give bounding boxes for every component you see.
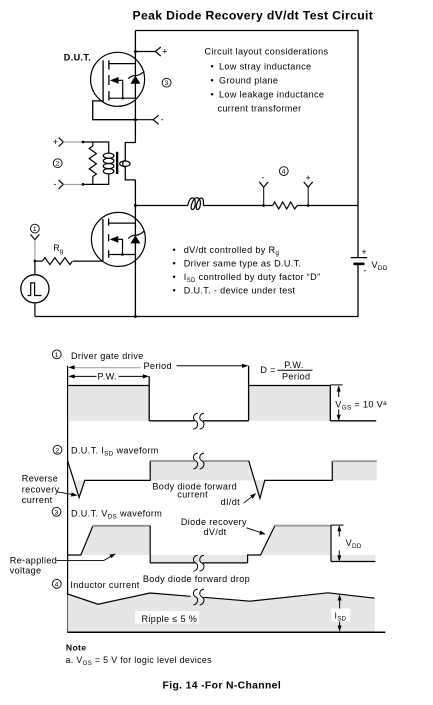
mosfet DUT gate-source tie wire — [93, 99, 136, 120]
svg-text:•: • — [211, 76, 215, 86]
wf3 outline left — [68, 526, 93, 555]
transformer T1 primary winding — [103, 153, 114, 174]
transformer T1 primary bottom wire — [83, 174, 109, 185]
svg-text:Period: Period — [282, 372, 310, 382]
wf2 waveform outline left — [68, 461, 151, 498]
wf2 right step gray top edge — [332, 460, 377, 462]
node 1 circled label — [31, 224, 40, 233]
transformer T1 secondary jog wires — [125, 143, 135, 180]
wf2 second spike fill — [255, 480, 265, 498]
svg-text:2: 2 — [55, 447, 59, 454]
svg-text:Low leakage inductance: Low leakage inductance — [219, 90, 324, 100]
wf4 ripple line segment b — [204, 593, 375, 601]
wf1 pulse2 fill — [249, 386, 331, 421]
terminal + sense wire — [135, 51, 155, 53]
wire right bus upper — [357, 30, 359, 258]
terminal - sense wire — [135, 119, 153, 121]
wf3 right drop and low line — [331, 525, 375, 561]
node 2 waveform circled label — [53, 445, 62, 454]
svg-text:Reverse: Reverse — [22, 474, 58, 484]
resistor Rg — [42, 258, 72, 265]
wf4 break symbol — [193, 589, 204, 605]
svg-text:a. VGS = 5 V for logic level d: a. VGS = 5 V for logic level devices — [66, 655, 213, 667]
svg-text:Note: Note — [66, 643, 87, 653]
svg-text:Re-applied: Re-applied — [10, 555, 57, 565]
mosfet DUT body arrow — [110, 77, 119, 84]
transformer T1 secondary loop — [120, 161, 130, 166]
wire gate drive left — [35, 260, 43, 262]
mosfet driver body arrow — [110, 236, 119, 243]
wf3 diode recovery arrow — [247, 528, 263, 533]
mosfet DUT channel segments — [108, 60, 110, 100]
svg-text:Ground plane: Ground plane — [219, 76, 278, 86]
svg-text:Fig. 14 -For N-Channel: Fig. 14 -For N-Channel — [163, 680, 282, 691]
waveform axis line — [67, 366, 69, 633]
wire left bus upper — [134, 31, 136, 144]
svg-text:current transformer: current transformer — [218, 104, 302, 114]
mosfet driver body diode cathode squiggle — [128, 231, 144, 239]
svg-text:Body diode forward drop: Body diode forward drop — [143, 574, 250, 584]
wf3 step and second ramp — [248, 526, 275, 563]
svg-text:-: - — [161, 114, 164, 124]
wf2 reverse recovery arrow — [58, 492, 74, 495]
mosfet driver source line — [109, 254, 136, 256]
terminal - sense chevron — [153, 115, 159, 124]
mosfet DUT gate bar — [102, 60, 104, 99]
mosfet driver gate bar — [102, 219, 104, 261]
svg-text:•: • — [211, 61, 215, 71]
wf4 baseline — [68, 631, 386, 633]
svg-text:Period: Period — [144, 361, 172, 371]
terminal 2- chevron — [59, 180, 64, 189]
wf1 period dimension line — [68, 361, 248, 371]
wire junction to pulse generator — [34, 261, 36, 275]
wf2 dI/dt arrow — [244, 495, 254, 503]
wire bottom rail — [35, 316, 358, 318]
node 2- junction dot — [82, 183, 85, 186]
wire pulse generator to ground rail — [34, 303, 36, 317]
svg-text:current: current — [22, 495, 53, 505]
terminal 2+ sense wire — [63, 141, 83, 143]
svg-text:Diode recovery: Diode recovery — [181, 517, 247, 527]
svg-text:VDD: VDD — [372, 260, 388, 272]
wf4 fill — [68, 593, 375, 632]
svg-text:P.W.: P.W. — [98, 371, 117, 381]
wf1 low line segment b — [203, 420, 249, 422]
mosfet DUT circle — [91, 52, 145, 106]
svg-text:P.W.: P.W. — [284, 360, 303, 370]
svg-text:dV/dt: dV/dt — [204, 527, 227, 537]
svg-text:recovery: recovery — [22, 485, 60, 495]
node 4+ junction dot — [307, 204, 310, 207]
wf4 ripple label — [135, 611, 199, 624]
wire inductor to resistor — [203, 205, 272, 207]
svg-text:dV/dt controlled by Rg: dV/dt controlled by Rg — [184, 245, 280, 257]
terminal 4+ stem — [307, 187, 309, 205]
node 2 circled label — [53, 159, 62, 168]
wf3 low line segment a — [150, 562, 194, 564]
mosfet driver body-source dot — [121, 253, 124, 256]
mosfet driver body diode triangle — [130, 235, 140, 243]
svg-text:+: + — [162, 47, 168, 57]
mosfet DUT body wire — [119, 80, 123, 98]
svg-text:Driver gate drive: Driver gate drive — [71, 351, 144, 361]
wire top rail — [135, 30, 358, 32]
svg-text:VDD: VDD — [346, 538, 362, 550]
wf2 reverse recovery spike fill — [74, 480, 85, 497]
terminal 4- stem — [263, 187, 265, 205]
terminal 4- chevron — [259, 182, 268, 187]
wire resistor to right bus — [297, 205, 358, 207]
wf3 first top gray edge — [93, 525, 151, 527]
battery VDD long plate — [351, 257, 367, 259]
wire Rg to gate — [73, 260, 103, 262]
svg-text:dI/dt: dI/dt — [221, 497, 241, 507]
wf1 pw dimension line — [68, 371, 149, 381]
terminal 2+ chevron — [59, 138, 64, 147]
svg-text:4: 4 — [55, 581, 59, 588]
wf1 vgs dimension — [330, 385, 342, 421]
svg-text:4: 4 — [282, 169, 286, 176]
mosfet DUT drain line — [109, 63, 135, 65]
wf3 low band fill right — [331, 555, 375, 561]
wf1 pulse1 fill — [68, 386, 149, 421]
wf1 duty factor formula — [260, 360, 312, 381]
wf1 low line segment a — [149, 420, 194, 422]
node 2+ junction dot — [82, 141, 85, 144]
resistor node4 — [273, 202, 298, 209]
svg-text:•: • — [211, 90, 215, 100]
wf3 second top gray edge — [275, 525, 331, 527]
terminal + sense chevron — [155, 47, 161, 56]
terminal 1 chevron — [31, 234, 40, 239]
wf2 falling ramp and spike — [249, 461, 333, 499]
node inductor branch junction dot — [134, 204, 137, 207]
svg-text:Inductor current: Inductor current — [70, 580, 139, 590]
terminal 4+ chevron — [304, 182, 313, 187]
mosfet DUT source line — [109, 97, 135, 99]
svg-text:2: 2 — [56, 161, 60, 168]
node bottom rail junction dot — [134, 315, 137, 318]
wf2 main fill — [150, 461, 255, 480]
svg-text:D.U.T. ISD waveform: D.U.T. ISD waveform — [71, 445, 159, 457]
wf3 vdd dimension — [331, 525, 344, 561]
battery VDD short plate — [354, 263, 365, 266]
wf3 first drop — [149, 526, 151, 563]
mosfet driver channel segments — [108, 218, 110, 257]
terminal 2- sense wire — [63, 183, 83, 185]
pulse generator waveform glyph — [28, 283, 42, 296]
svg-text:voltage: voltage — [10, 566, 42, 576]
mosfet driver circle — [91, 212, 145, 266]
inductor L1 — [188, 198, 204, 210]
wf3 low band fill left — [150, 555, 247, 563]
svg-text:-: - — [54, 179, 57, 189]
svg-text:D.U.T.: D.U.T. — [64, 52, 91, 62]
wf3 first pulse fill — [81, 526, 150, 555]
svg-text:Rg: Rg — [53, 243, 63, 255]
wf2 top edge segment b — [203, 460, 249, 462]
svg-text:1: 1 — [55, 352, 59, 359]
wf4 isd dimension — [332, 594, 351, 631]
svg-text:-: - — [363, 265, 366, 275]
svg-text:Low stray inductance: Low stray inductance — [219, 61, 311, 71]
svg-text:3: 3 — [165, 80, 169, 87]
svg-text:Ripple ≤ 5 %: Ripple ≤ 5 % — [142, 614, 198, 624]
wire to inductor — [135, 205, 188, 207]
wf3 re-applied voltage arrow — [57, 555, 113, 560]
svg-text:•: • — [173, 245, 177, 255]
node source sense (-) junction dot — [134, 118, 137, 121]
svg-text:+: + — [305, 173, 311, 183]
svg-text:1: 1 — [33, 226, 37, 233]
node 4 waveform circled label — [52, 579, 61, 588]
wf3 second pulse fill — [261, 526, 332, 555]
mosfet driver body wire — [118, 239, 122, 254]
wf2 right step fill — [332, 461, 377, 480]
svg-text:Peak Diode Recovery dV/dt Test: Peak Diode Recovery dV/dt Test Circuit — [133, 9, 374, 23]
wf2 break symbol — [193, 453, 204, 469]
resistor sense (transformer burden) — [89, 142, 96, 184]
svg-text:+: + — [53, 137, 59, 147]
node drain sense (+) junction dot — [134, 50, 137, 53]
wf1 low line right — [330, 420, 376, 422]
svg-text:ISD controlled by duty factor: ISD controlled by duty factor “D” — [184, 272, 321, 284]
svg-text:Circuit layout considerations: Circuit layout considerations — [205, 47, 329, 57]
wire right bus lower — [357, 264, 359, 317]
svg-text:D.U.T. VDS waveform: D.U.T. VDS waveform — [71, 508, 162, 520]
wf3 break symbol — [193, 555, 204, 571]
mosfet DUT body diode cathode squiggle — [128, 71, 144, 79]
svg-text:D.U.T. - device under test: D.U.T. - device under test — [184, 286, 296, 296]
wf1 pulse1 outline — [68, 376, 149, 420]
wf1 break symbol — [193, 413, 204, 429]
node 3 circled label — [162, 78, 171, 87]
svg-text:Driver same type as D.U.T.: Driver same type as D.U.T. — [184, 259, 302, 269]
node 3 waveform circled label — [52, 507, 61, 516]
svg-text:3: 3 — [54, 509, 58, 516]
svg-text:D =: D = — [260, 365, 275, 375]
mosfet DUT body-source dot — [121, 97, 124, 100]
svg-text:+: + — [362, 247, 368, 257]
svg-text:VGS = 10 Va: VGS = 10 Va — [335, 399, 387, 411]
svg-text:-: - — [262, 172, 265, 182]
svg-text:•: • — [173, 259, 177, 269]
svg-text:•: • — [173, 272, 177, 282]
mosfet driver drain line — [109, 222, 136, 224]
wf2 top edge segment a — [150, 460, 194, 462]
terminal 1 stem — [34, 240, 36, 261]
node 4 circled label — [279, 167, 288, 176]
node 4- junction dot — [262, 204, 265, 207]
mosfet DUT body diode triangle — [130, 76, 140, 84]
svg-text:•: • — [173, 286, 177, 296]
node 1 waveform circled label — [52, 350, 61, 359]
transformer T1 core — [116, 152, 118, 174]
wf4 ripple line segment a — [68, 593, 191, 604]
pulse generator circle — [21, 275, 49, 303]
wf3 low line segment b — [203, 562, 248, 564]
wire left bus lower — [134, 180, 136, 317]
wf1 pulse2 outline — [249, 366, 331, 421]
svg-text:current: current — [177, 490, 208, 500]
transformer T1 primary top wire — [83, 142, 109, 153]
node gate drive junction dot — [34, 260, 37, 263]
